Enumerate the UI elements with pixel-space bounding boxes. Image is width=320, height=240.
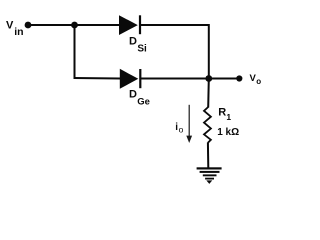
wire DSi cathode to top-right corner <box>140 24 209 26</box>
wire junction A to DSi anode <box>75 24 121 26</box>
diode DSi <box>119 15 140 35</box>
junction B <box>205 75 212 82</box>
svg-text:D: D <box>129 35 137 47</box>
wire Vin to junction A <box>28 24 75 26</box>
ground <box>197 167 222 184</box>
current arrow io <box>186 105 192 143</box>
svg-text:D: D <box>129 89 137 101</box>
svg-text:R: R <box>218 107 226 119</box>
svg-text:V: V <box>6 20 14 32</box>
resistor R1 <box>204 107 211 143</box>
junction A <box>71 22 78 29</box>
svg-text:1 kΩ: 1 kΩ <box>217 127 239 138</box>
svg-text:o: o <box>179 124 184 134</box>
svg-text:Si: Si <box>137 43 147 54</box>
node Vin terminal <box>25 22 32 29</box>
svg-text:1: 1 <box>226 112 231 122</box>
svg-text:Ge: Ge <box>137 96 150 107</box>
wire junction A down to lower branch corner <box>74 25 76 78</box>
svg-text:o: o <box>256 77 261 86</box>
wire junction B down to resistor R1 <box>207 79 210 108</box>
wire lower branch corner to DGe anode <box>74 77 121 80</box>
wire resistor to ground <box>207 143 209 168</box>
wire DGe cathode to junction B <box>140 78 209 80</box>
wire top-right corner down to junction B <box>208 24 210 79</box>
node Vo terminal <box>236 75 242 81</box>
svg-text:in: in <box>14 26 23 38</box>
diode DGe <box>120 69 141 89</box>
wire junction B to Vo terminal <box>209 78 237 80</box>
